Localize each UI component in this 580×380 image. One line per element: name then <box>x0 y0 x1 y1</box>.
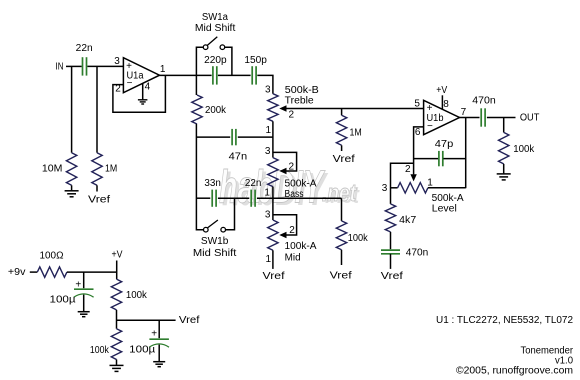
wire 47n line left <box>196 136 230 138</box>
wire 100k to Vref junction <box>116 310 118 329</box>
switch SW1b lever <box>208 220 218 228</box>
wire mid pin1 to Vref <box>272 250 274 269</box>
svg-text:−: − <box>127 78 133 89</box>
svg-text:100µ: 100µ <box>129 345 155 356</box>
svg-text:OUT: OUT <box>520 112 540 123</box>
wire 1M to Vref <box>96 185 98 191</box>
wire SW1b right leg <box>226 198 235 230</box>
svg-text:+V: +V <box>436 85 447 96</box>
wire level pin1 to output vertical <box>428 187 466 189</box>
svg-text:4k7: 4k7 <box>399 215 416 226</box>
svg-text:100k: 100k <box>348 233 369 244</box>
svg-text:100µ: 100µ <box>50 294 76 305</box>
svg-text:.net: .net <box>322 180 357 207</box>
resistor 100k output <box>499 132 509 164</box>
svg-text:22n: 22n <box>245 178 262 189</box>
resistor 1M input <box>92 153 102 186</box>
capacitor 47n <box>231 129 233 145</box>
svg-text:SW1a: SW1a <box>202 12 228 23</box>
svg-text:47p: 47p <box>435 139 454 150</box>
wire +9v stub <box>30 271 38 273</box>
wire C1 to U1a pin3 <box>87 65 123 67</box>
ground under 10M <box>65 190 79 192</box>
watermark habDIY.net <box>219 161 360 216</box>
svg-text:Vref: Vref <box>179 315 200 326</box>
wire bus down to 100k <box>341 198 343 221</box>
svg-text:2: 2 <box>405 164 411 175</box>
wire level pin3 stub <box>391 187 398 189</box>
svg-text:2: 2 <box>289 161 295 172</box>
svg-text:100k: 100k <box>90 345 110 356</box>
svg-text:33n: 33n <box>204 178 221 189</box>
wire 100u to ground <box>83 295 85 312</box>
capacitor 22n bass <box>250 190 252 207</box>
svg-text:Vref: Vref <box>330 271 352 282</box>
svg-text:Vref: Vref <box>263 271 285 282</box>
potentiometer 500k-B Treble <box>268 94 278 122</box>
wiper arrow Treble pin2 <box>279 105 286 111</box>
svg-text:Vref: Vref <box>88 194 110 205</box>
svg-text:1: 1 <box>266 254 272 265</box>
svg-text:Treble: Treble <box>285 95 314 106</box>
wire IN to C1 <box>66 65 82 67</box>
resistor 100R <box>37 267 67 277</box>
wiper arrow Mid pin2 <box>279 232 286 238</box>
svg-text:150p: 150p <box>244 55 267 66</box>
svg-text:3: 3 <box>382 183 388 194</box>
capacitor 220p <box>212 66 214 84</box>
resistor 10M <box>66 153 76 186</box>
wire bass wiper tie <box>273 152 297 171</box>
wire 47n line right <box>238 136 273 138</box>
wire 47p line left <box>414 158 439 160</box>
wire 200k down through 47n node and bus to SW1b <box>196 75 203 229</box>
wire level tie pin2-pin3 <box>391 163 414 204</box>
svg-text:1M: 1M <box>105 163 117 174</box>
svg-text:500k-B: 500k-B <box>285 85 319 96</box>
svg-text:500k-A: 500k-A <box>285 179 317 190</box>
wire bus left <box>196 197 210 199</box>
wiper arrow Bass pin2 <box>279 168 286 174</box>
wire junction to 1M <box>96 66 98 152</box>
capacitor 100u first <box>83 272 85 288</box>
svg-text:SW1b: SW1b <box>201 236 229 247</box>
svg-text:Mid Shift: Mid Shift <box>193 248 237 259</box>
capacitor 47p <box>438 151 440 166</box>
svg-text:1: 1 <box>264 187 270 198</box>
svg-text:4: 4 <box>145 82 151 93</box>
capacitor 100u second <box>158 320 160 338</box>
svg-text:100k-A: 100k-A <box>285 241 317 252</box>
wire 100k lower to ground <box>116 360 118 365</box>
svg-text:3: 3 <box>114 56 120 67</box>
svg-text:U1 : TLC2272, NE5532, TL072: U1 : TLC2272, NE5532, TL072 <box>436 315 573 326</box>
svg-text:+9v: +9v <box>8 267 26 278</box>
svg-text:200k: 200k <box>205 105 227 116</box>
svg-text:22n: 22n <box>76 43 93 54</box>
svg-text:220p: 220p <box>204 55 227 66</box>
switch SW1b <box>204 227 209 232</box>
wire SW1a left leg <box>196 47 203 75</box>
svg-text:+: + <box>151 329 157 340</box>
resistor 100k psu lower <box>111 329 121 360</box>
wire output vertical <box>465 118 467 189</box>
wire out junction to 100k <box>503 118 505 133</box>
svg-text:470n: 470n <box>472 95 496 106</box>
resistor 200k <box>192 95 202 124</box>
wire SW1a right leg <box>225 47 232 75</box>
svg-text:6: 6 <box>415 127 421 138</box>
capacitor 470n output <box>480 108 482 126</box>
wire U1a feedback pin2 loop <box>113 75 165 112</box>
svg-text:47n: 47n <box>229 151 248 162</box>
svg-text:+V: +V <box>112 250 123 261</box>
svg-text:2: 2 <box>289 109 295 120</box>
op-amp U1a <box>123 58 159 93</box>
svg-text:3: 3 <box>265 209 271 220</box>
resistor 100k bus <box>336 221 346 250</box>
wire treble pin1 down to bass pin3 <box>272 121 274 157</box>
wire 100k to Vref <box>341 250 343 265</box>
capacitor 22n input <box>82 57 84 75</box>
svg-text:1: 1 <box>160 64 166 75</box>
svg-text:5: 5 <box>414 98 420 109</box>
svg-text:10M: 10M <box>42 164 63 175</box>
op-amp U1b <box>424 100 460 134</box>
svg-text:7: 7 <box>461 107 467 118</box>
resistor 100k psu upper <box>111 279 121 310</box>
svg-text:8: 8 <box>443 99 449 110</box>
resistor 4k7 <box>385 204 395 232</box>
svg-text:100Ω: 100Ω <box>40 250 65 261</box>
svg-text:Mid Shift: Mid Shift <box>195 23 236 34</box>
svg-text:−: − <box>427 121 433 132</box>
wiper arrow Level pin2 <box>410 174 416 181</box>
svg-text:Vref: Vref <box>333 154 355 165</box>
svg-text:Vref: Vref <box>381 271 403 282</box>
wire 100u second to ground <box>158 345 160 362</box>
svg-text:500k-A: 500k-A <box>432 193 464 204</box>
svg-text:100k: 100k <box>126 290 148 301</box>
wire 470n to OUT <box>487 117 516 119</box>
capacitor 150p <box>251 66 253 84</box>
svg-text:Level: Level <box>432 204 457 215</box>
wire 4k7 to 470n <box>390 232 392 249</box>
svg-text:©2005, runoffgroove.com: ©2005, runoffgroove.com <box>456 366 573 377</box>
wire 150p to treble pin3 <box>257 75 273 93</box>
wire 470n to Vref <box>390 254 392 269</box>
svg-text:IN: IN <box>56 62 64 73</box>
wire Vref line <box>117 319 176 321</box>
wire U1b pin6 <box>414 127 424 174</box>
wire mid wiper tie <box>273 215 297 235</box>
potentiometer 500k-A Level <box>398 183 428 193</box>
ground U1a pin4 <box>138 99 148 101</box>
wire U1b pin8 +V <box>441 95 443 109</box>
wire 10M to ground <box>71 185 73 190</box>
svg-text:Mid: Mid <box>285 253 301 264</box>
resistor 1M mid <box>336 115 346 145</box>
svg-text:100k: 100k <box>513 144 535 155</box>
ground 100u second <box>153 361 165 363</box>
potentiometer 500k-A Bass <box>268 158 278 187</box>
wire bus right <box>257 197 342 199</box>
capacitor 470n vref <box>381 249 400 251</box>
wire junction to 10M <box>71 66 73 152</box>
svg-text:470n: 470n <box>406 248 429 259</box>
wire 1M to Vref <box>341 145 343 151</box>
wire 220p to 150p <box>218 74 251 76</box>
wire +V down to 100k <box>116 261 118 280</box>
wire treble line to 1M <box>341 109 343 116</box>
wire bus mid <box>218 197 249 199</box>
svg-text:1M: 1M <box>350 128 362 139</box>
wire 100k to ground <box>503 164 505 174</box>
svg-text:3: 3 <box>265 146 271 157</box>
wire bass pin1 to bus <box>272 187 274 199</box>
ground psu lower <box>110 364 124 366</box>
ground output <box>497 173 511 175</box>
wire U1a pin4 <box>142 84 144 100</box>
capacitor 33n <box>211 190 213 207</box>
svg-text:1: 1 <box>266 125 272 136</box>
wire U1a output <box>160 74 212 76</box>
ground 100u first <box>78 311 90 313</box>
wire treble wiper to U1b pin5 <box>286 108 423 110</box>
svg-text:2: 2 <box>289 225 295 236</box>
wire 47p line right <box>443 158 465 160</box>
wire U1b output <box>460 117 480 119</box>
switch SW1a lever <box>207 37 217 46</box>
potentiometer 100k-A Mid <box>272 198 274 220</box>
svg-text:3: 3 <box>265 84 271 95</box>
wire 100R to +V node <box>67 271 117 273</box>
